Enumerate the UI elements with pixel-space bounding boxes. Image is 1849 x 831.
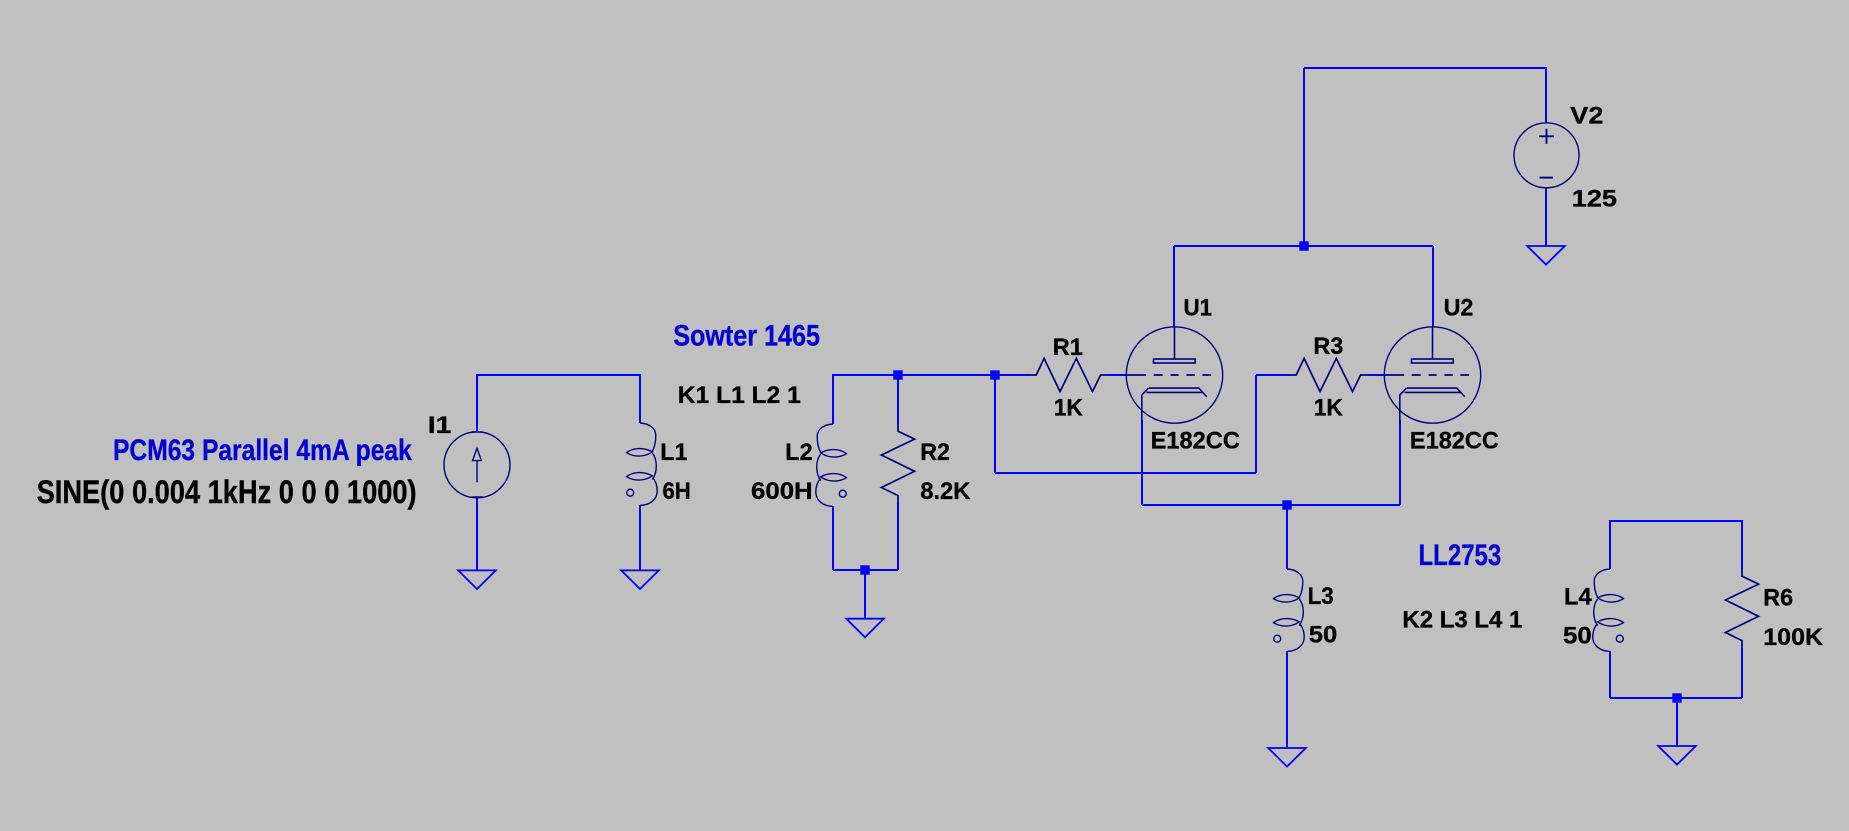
wire U1 cathode down bbox=[1141, 420, 1143, 505]
wire R6 top lead bbox=[1741, 520, 1743, 569]
wire L1 bottom to ground bbox=[639, 505, 641, 570]
wire V2 bottom to ground bbox=[1545, 188, 1547, 246]
svg-text:R6: R6 bbox=[1763, 585, 1793, 612]
wire U2 plate up bbox=[1432, 246, 1434, 327]
svg-text:1K: 1K bbox=[1054, 395, 1083, 422]
svg-text:50: 50 bbox=[1309, 622, 1338, 649]
svg-text:L2: L2 bbox=[785, 439, 812, 466]
wire L2 bottom vertical bbox=[832, 506, 834, 570]
svg-text:6H: 6H bbox=[663, 478, 691, 505]
svg-text:SINE(0 0.004 1kHz 0 0 0 1000): SINE(0 0.004 1kHz 0 0 0 1000) bbox=[37, 474, 417, 510]
ground at V2 bbox=[1527, 246, 1565, 265]
wire L2 top vertical bbox=[832, 374, 834, 424]
wire I1 bottom to ground bbox=[476, 498, 478, 570]
wire L4 bottom lead bbox=[1609, 651, 1611, 698]
resistor R1 bbox=[1029, 358, 1108, 391]
svg-text:R3: R3 bbox=[1313, 333, 1343, 360]
wire N1 down vertical bbox=[994, 375, 996, 473]
svg-text:50: 50 bbox=[1563, 623, 1592, 650]
wire I1 to L1 horizontal bbox=[476, 374, 641, 376]
wire rail to V2 vertical bbox=[1303, 68, 1305, 246]
svg-text:U2: U2 bbox=[1444, 294, 1474, 321]
wire R6 bottom lead bbox=[1741, 648, 1743, 698]
svg-text:R1: R1 bbox=[1053, 334, 1083, 361]
inductor L3 bbox=[1274, 569, 1305, 651]
wire ground stem at L2/R2 bbox=[864, 570, 866, 619]
ground at I1 bbox=[458, 570, 496, 589]
inductor L2 (mirrored) bbox=[816, 424, 847, 506]
wire L3 bottom to ground bbox=[1286, 651, 1288, 748]
current source I1 bbox=[444, 432, 510, 498]
node junction L4/R6 bottom bbox=[1672, 693, 1681, 702]
svg-text:125: 125 bbox=[1572, 185, 1617, 212]
wire ground stem at L4/R6 bbox=[1676, 698, 1678, 746]
wire L4-R6 bottom horizontal bbox=[1610, 697, 1742, 699]
svg-text:LL2753: LL2753 bbox=[1419, 539, 1502, 572]
svg-text:E182CC: E182CC bbox=[1151, 427, 1241, 454]
wire R2 top lead bbox=[897, 374, 899, 424]
wire R1 to U1 grid bbox=[1108, 374, 1127, 376]
node junction plate rail bbox=[1299, 241, 1308, 250]
wire L1 top vertical bbox=[639, 374, 641, 423]
svg-text:8.2K: 8.2K bbox=[920, 478, 971, 505]
voltage source V2 bbox=[1514, 123, 1579, 188]
svg-text:E182CC: E182CC bbox=[1410, 427, 1499, 454]
svg-text:Sowter 1465: Sowter 1465 bbox=[673, 320, 820, 353]
wire R2 bottom lead bbox=[897, 503, 899, 570]
svg-text:PCM63 Parallel 4mA peak: PCM63 Parallel 4mA peak bbox=[113, 434, 412, 467]
wire cathode bus horizontal bbox=[1142, 504, 1400, 506]
svg-text:K1 L1 L2 1: K1 L1 L2 1 bbox=[678, 382, 801, 409]
tube U2 bbox=[1384, 327, 1480, 424]
wire plate rail horizontal bbox=[1174, 245, 1433, 247]
svg-text:I1: I1 bbox=[428, 412, 452, 439]
ground at L4/R6 bbox=[1658, 746, 1696, 765]
inductor L4 (mirrored) bbox=[1593, 569, 1624, 651]
wire feedback vertical up bbox=[1255, 375, 1257, 473]
wire R3 to U2 grid bbox=[1368, 374, 1385, 376]
ground at L2/R2 bbox=[846, 619, 884, 638]
tube U1 bbox=[1126, 327, 1222, 424]
node junction N1 grid node bbox=[990, 370, 999, 379]
ground at L1 bbox=[621, 570, 659, 589]
svg-text:U1: U1 bbox=[1184, 294, 1213, 321]
wire top horizontal to V2 bbox=[1304, 67, 1546, 69]
svg-text:K2 L3 L4 1: K2 L3 L4 1 bbox=[1402, 607, 1522, 634]
svg-text:600H: 600H bbox=[751, 478, 813, 505]
svg-text:L1: L1 bbox=[660, 439, 687, 466]
wire to R3 left bbox=[1256, 374, 1289, 376]
svg-text:L3: L3 bbox=[1308, 583, 1334, 610]
wire node to L3 top bbox=[1286, 505, 1288, 569]
node junction L2/R2 bottom bbox=[860, 565, 869, 574]
svg-text:R2: R2 bbox=[920, 439, 950, 466]
svg-text:L4: L4 bbox=[1564, 584, 1592, 611]
resistor R6 (vertical) bbox=[1725, 569, 1758, 648]
wire L2-R2 bottom horizontal bbox=[833, 569, 898, 571]
wire node N1 to R1 bbox=[994, 374, 1029, 376]
wire I1 top vertical bbox=[476, 375, 478, 431]
resistor R3 bbox=[1289, 358, 1368, 391]
node junction cathode bus bbox=[1282, 500, 1291, 509]
ground at L3 bbox=[1268, 748, 1306, 767]
wire V2 top lead bbox=[1545, 67, 1547, 123]
wire L4-R6 top horizontal bbox=[1610, 520, 1742, 522]
wire U1 plate up bbox=[1173, 246, 1175, 327]
resistor R2 (vertical) bbox=[881, 424, 914, 503]
svg-text:100K: 100K bbox=[1763, 624, 1823, 651]
wire L2 to node N1 horizontal bbox=[833, 374, 995, 376]
svg-text:1K: 1K bbox=[1314, 395, 1343, 422]
node junction L2 top / R2 bbox=[893, 370, 902, 379]
wire feedback horizontal bbox=[995, 472, 1256, 474]
wire L4 top lead bbox=[1609, 520, 1611, 569]
inductor L1 bbox=[627, 423, 658, 505]
wire U2 cathode down bbox=[1399, 420, 1401, 505]
svg-text:V2: V2 bbox=[1570, 103, 1603, 130]
